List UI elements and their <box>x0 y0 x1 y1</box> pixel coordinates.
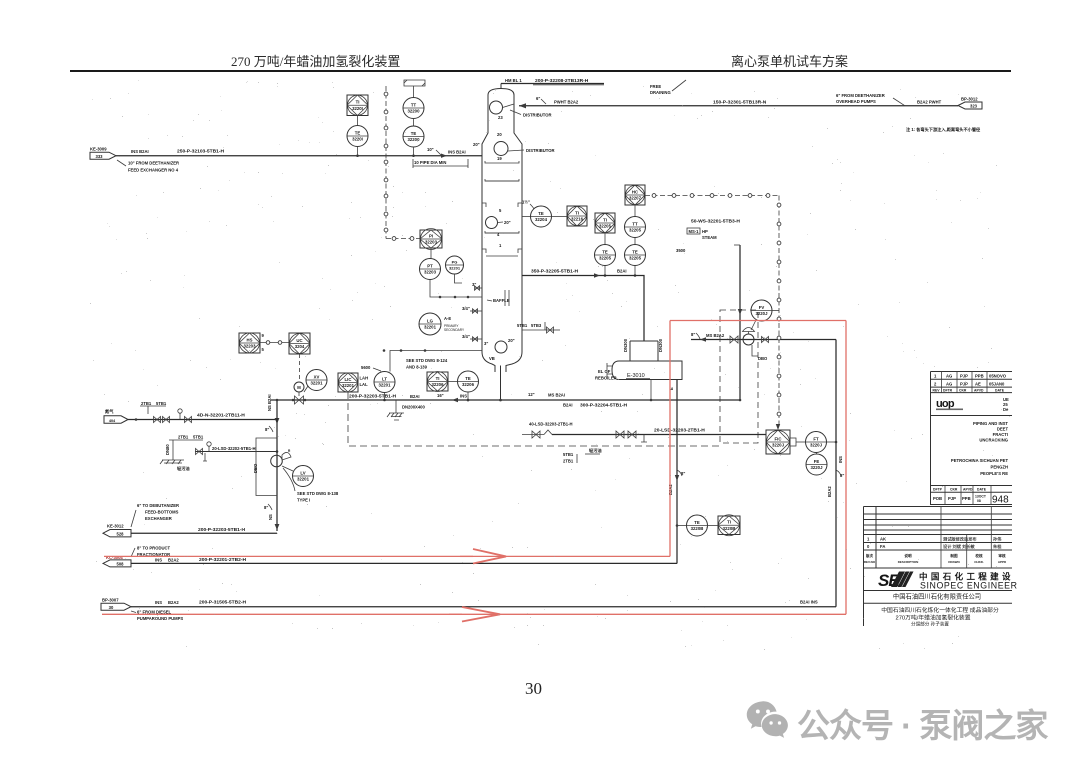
svg-text:制图: 制图 <box>950 553 958 558</box>
svg-text:BP-3007: BP-3007 <box>102 598 119 603</box>
svg-text:2TB1: 2TB1 <box>178 435 189 440</box>
svg-text:404: 404 <box>109 419 116 423</box>
svg-text:测试版修改后发布: 测试版修改后发布 <box>943 536 977 543</box>
branch to TE-3220B <box>677 525 687 527</box>
reboiler bottom stub <box>650 380 652 401</box>
line 350-P-32205 <box>522 276 644 342</box>
line TI to TE 32206 <box>448 381 458 383</box>
svg-text:DISTRIBUTOR: DISTRIBUTOR <box>523 113 552 118</box>
column lower distributor <box>494 142 508 156</box>
svg-text:DFTR: DFTR <box>943 388 953 392</box>
svg-text:DN300: DN300 <box>623 338 628 352</box>
signal elbow to PI <box>386 238 420 240</box>
dashed signal LIC to FIC route <box>348 392 720 446</box>
instrument TE-3220B <box>687 515 708 536</box>
signal HS to UC <box>260 342 289 344</box>
svg-text:8": 8" <box>265 427 269 432</box>
svg-text:POB: POB <box>933 496 942 501</box>
tag KE-3009 <box>90 147 116 160</box>
column nozzle 3/4 left lower <box>470 338 482 340</box>
svg-text:32206: 32206 <box>432 382 445 387</box>
column section notch a <box>482 203 522 207</box>
svg-text:OVERHEAD PUMPS: OVERHEAD PUMPS <box>836 99 876 104</box>
svg-text:NS: NS <box>268 514 273 520</box>
svg-text:40-LSD-32203-2TB1-H: 40-LSD-32203-2TB1-H <box>529 422 573 427</box>
line FIC to FT <box>796 441 806 443</box>
reflux line 150-P-32301 <box>519 105 958 107</box>
svg-text:10" FROM DEETHANIZER: 10" FROM DEETHANIZER <box>128 161 179 166</box>
PT tap line to column <box>430 280 482 298</box>
svg-text:5: 5 <box>262 347 265 352</box>
svg-text:32201: 32201 <box>297 477 310 482</box>
wash line valve pair right wall <box>544 322 546 330</box>
svg-text:HC: HC <box>632 189 638 194</box>
svg-text:3220B: 3220B <box>691 526 704 531</box>
LT stem to line <box>384 393 386 401</box>
motor operator M <box>294 382 304 392</box>
svg-text:B2A2 PWHT: B2A2 PWHT <box>917 100 942 105</box>
svg-text:MS B2AI: MS B2AI <box>548 393 565 398</box>
svg-text:B2AI INS: B2AI INS <box>800 600 818 605</box>
instrument TT-32200 <box>403 98 424 119</box>
svg-text:分馏部分 孙子装置: 分馏部分 孙子装置 <box>911 621 949 628</box>
instrument TE-32206 <box>458 371 479 392</box>
svg-text:200-P-32208-2TB13R-H: 200-P-32208-2TB13R-H <box>535 78 589 84</box>
svg-text:MS B2A2: MS B2A2 <box>706 333 725 338</box>
signal vertical to FIC <box>778 196 780 424</box>
stem TI-TE a <box>604 233 606 245</box>
svg-text:1: 1 <box>499 243 502 248</box>
svg-text:TE: TE <box>355 130 361 135</box>
svg-text:6" FROM DEETHANIZER: 6" FROM DEETHANIZER <box>836 93 885 98</box>
column top nozzle <box>500 84 502 89</box>
stem box-TT <box>413 86 415 97</box>
svg-text:HM BL 1: HM BL 1 <box>505 78 522 83</box>
svg-text:32200: 32200 <box>408 109 421 114</box>
svg-text:32201: 32201 <box>311 381 324 386</box>
svg-text:3/4": 3/4" <box>462 306 470 311</box>
svg-text:SEE STD DWG 8-124: SEE STD DWG 8-124 <box>406 358 448 363</box>
svg-text:DRAINING: DRAINING <box>650 90 671 95</box>
svg-text:19: 19 <box>497 156 502 161</box>
svg-text:TI: TI <box>603 217 607 222</box>
svg-text:3220I: 3220I <box>352 106 363 111</box>
stem TT-TE <box>413 119 415 127</box>
instrument TI-32216 square <box>567 206 587 226</box>
svg-text:TYPE I: TYPE I <box>297 498 310 503</box>
ws line down to bottoms <box>739 245 741 400</box>
column wall valve 3in <box>475 286 480 290</box>
svg-text:DISTRIBUTOR: DISTRIBUTOR <box>526 148 555 153</box>
svg-text:250-P-32103-5TB1-H: 250-P-32103-5TB1-H <box>177 149 224 155</box>
drain valves <box>196 449 203 455</box>
svg-text:DBO: DBO <box>253 463 258 473</box>
scan speckles <box>90 80 1010 650</box>
svg-text:朱桂: 朱桂 <box>993 543 1002 550</box>
nitrogen line 4D-N <box>128 419 277 421</box>
svg-text:5TB1: 5TB1 <box>156 401 167 406</box>
PG tap stem <box>455 274 463 283</box>
line TE-32204 to TI-32216 <box>552 216 568 218</box>
svg-text:TI: TI <box>356 100 360 105</box>
gate valve with motor XV <box>295 396 304 404</box>
column manway 20in bottom <box>495 341 507 353</box>
svg-text:DBO: DBO <box>758 356 768 361</box>
instrument TE-32200 <box>403 126 424 147</box>
svg-text:0: 0 <box>867 544 870 549</box>
svg-text:PETROCHINA SICHUAN PET: PETROCHINA SICHUAN PET <box>951 458 1009 463</box>
svg-text:3220J: 3220J <box>772 443 785 448</box>
instrument TI-3220B square <box>718 515 740 536</box>
stem PI-PT <box>430 248 432 259</box>
svg-text:200-P-32203-5TB1-H: 200-P-32203-5TB1-H <box>349 394 396 400</box>
svg-text:CHKD.: CHKD. <box>974 560 984 564</box>
instrument FIC-3220J square <box>766 430 790 454</box>
svg-text:3220J: 3220J <box>756 311 769 316</box>
header right title <box>731 51 848 70</box>
svg-text:05JAN0: 05JAN0 <box>989 381 1005 386</box>
instrument LIC-32201 square <box>338 373 358 392</box>
svg-text:PIPING AND INST: PIPING AND INST <box>973 421 1008 426</box>
svg-text:8": 8" <box>264 505 268 510</box>
column nozzle 3/4 left <box>470 310 482 312</box>
svg-text:PUMPAROUND PUMPS: PUMPAROUND PUMPS <box>137 616 183 621</box>
svg-text:32201: 32201 <box>379 383 392 388</box>
svg-text:LT: LT <box>382 376 387 381</box>
LV bypass loop <box>256 438 277 496</box>
watermark wechat icon <box>745 698 791 740</box>
nitrogen valves <box>154 417 161 423</box>
instrument FE-3220J <box>806 454 827 475</box>
instrument LV-32201 <box>293 466 314 487</box>
svg-text:16": 16" <box>437 393 444 398</box>
lsd block valves <box>616 431 624 438</box>
svg-text:APPD: APPD <box>998 560 1007 564</box>
svg-text:AND 8-139: AND 8-139 <box>406 365 428 370</box>
svg-text:3220J: 3220J <box>810 443 823 448</box>
column wall valve 3/4 lower <box>473 337 478 341</box>
stem TT-TE b <box>634 238 636 245</box>
svg-text:VB: VB <box>489 356 495 361</box>
svg-text:SINOPEC ENGINEER: SINOPEC ENGINEER <box>920 581 1018 591</box>
lsd line valves left <box>522 434 544 436</box>
svg-text:INS B2AI: INS B2AI <box>448 150 466 155</box>
svg-text:校核: 校核 <box>975 553 983 558</box>
svg-text:孙伟: 孙伟 <box>993 536 1002 543</box>
column tray 19 <box>485 161 519 163</box>
svg-text:AG: AG <box>946 381 952 386</box>
LT top tap line <box>390 351 482 372</box>
svg-text:528: 528 <box>117 532 125 537</box>
svg-text:12": 12" <box>528 392 535 397</box>
svg-text:20-LSD-32203-2TB1-H: 20-LSD-32203-2TB1-H <box>654 428 705 434</box>
column manway 20in upper <box>486 217 498 229</box>
svg-text:FA: FA <box>880 544 885 549</box>
tag BP-3012 <box>958 97 982 110</box>
svg-text:设计 刘斌 刘长敏: 设计 刘斌 刘长敏 <box>943 543 975 550</box>
column neck distributor <box>490 101 503 114</box>
svg-text:5TB1: 5TB1 <box>193 435 204 440</box>
instrument TI-32206 square <box>427 372 448 392</box>
svg-text:STEAM: STEAM <box>702 235 717 240</box>
svg-text:200-P-31505-5TB2-H: 200-P-31505-5TB2-H <box>199 600 246 606</box>
svg-text:5600: 5600 <box>361 365 371 370</box>
svg-text:LG: LG <box>427 318 434 323</box>
svg-text:32205: 32205 <box>599 256 612 261</box>
steam line MS to FV <box>691 339 836 341</box>
svg-text:B2AI: B2AI <box>410 394 420 399</box>
svg-text:REBOILER: REBOILER <box>595 376 617 381</box>
svg-text:INS: INS <box>838 456 843 463</box>
svg-text:FREE: FREE <box>650 84 661 89</box>
svg-text:DEET: DEET <box>997 427 1009 432</box>
boiler oil standpipe <box>169 440 177 460</box>
svg-text:DATE: DATE <box>977 488 987 492</box>
svg-text:审核: 审核 <box>998 553 1006 558</box>
instrument TE circle <box>347 126 368 147</box>
svg-text:uop: uop <box>936 398 955 410</box>
reboiler flange left <box>607 363 612 377</box>
line column to TE-32204 <box>522 216 531 218</box>
svg-text:TE: TE <box>632 249 638 254</box>
bottoms line 200-P-32203 <box>271 399 740 401</box>
svg-text:5: 5 <box>499 208 502 213</box>
header left title <box>231 51 400 70</box>
svg-text:270万吨/年蜡油加氢裂化装置: 270万吨/年蜡油加氢裂化装置 <box>895 614 970 622</box>
red riser right <box>845 321 847 615</box>
column section notch b <box>482 249 522 253</box>
svg-text:De: De <box>1003 407 1009 412</box>
svg-text:NS B2AI: NS B2AI <box>267 394 272 411</box>
svg-text:B2A2: B2A2 <box>827 486 832 497</box>
overhead line 200-P-32208 <box>501 83 604 85</box>
svg-text:TI: TI <box>727 520 731 525</box>
svg-text:2TB1: 2TB1 <box>563 459 574 464</box>
svg-text:B2A2: B2A2 <box>168 558 179 563</box>
svg-text:32216: 32216 <box>571 217 584 222</box>
TE-32200 stem to line <box>413 147 415 156</box>
svg-text:23: 23 <box>498 115 503 120</box>
red arrow return line <box>462 607 500 622</box>
svg-text:32201: 32201 <box>342 383 355 388</box>
svg-text:B2AI: B2AI <box>563 403 573 408</box>
svg-text:DRAWN: DRAWN <box>948 560 959 564</box>
svg-text:TE: TE <box>602 249 608 254</box>
svg-text:TT: TT <box>411 102 417 107</box>
column boot line to bottoms <box>500 366 502 401</box>
svg-text:B2AI: B2AI <box>617 269 627 274</box>
svg-text:FEED-BOTTOMS: FEED-BOTTOMS <box>145 510 179 515</box>
svg-text:DN200X400: DN200X400 <box>402 405 425 410</box>
instrument XV-32201 <box>306 370 327 391</box>
svg-text:PEOPLE'S RE: PEOPLE'S RE <box>980 471 1008 476</box>
svg-text:PJP: PJP <box>960 381 968 386</box>
svg-text:20": 20" <box>504 220 511 225</box>
line 200-P-32203 to exchanger <box>131 532 277 534</box>
svg-text:948: 948 <box>992 495 1009 506</box>
svg-text:A-E: A-E <box>444 316 451 321</box>
svg-text:32205: 32205 <box>629 228 642 233</box>
svg-text:TT: TT <box>632 221 638 226</box>
instrument TE-32204 <box>531 206 552 227</box>
svg-text:CKR: CKR <box>950 488 958 492</box>
instrument TI-32205 square <box>595 213 615 233</box>
svg-text:INS: INS <box>460 394 467 399</box>
svg-text:32206: 32206 <box>462 382 475 387</box>
watermark text <box>797 699 1047 747</box>
svg-text:TI: TI <box>575 210 579 215</box>
FV actuator dome <box>743 328 755 332</box>
svg-text:350-P-32205-5TB1-H: 350-P-32205-5TB1-H <box>531 269 578 275</box>
svg-text:32201: 32201 <box>424 325 437 330</box>
tag BP-3007 <box>101 598 131 611</box>
instrument HS-32203 square <box>239 333 260 353</box>
svg-text:20": 20" <box>473 142 480 147</box>
level gauge LG-32201 <box>419 313 441 335</box>
svg-text:32203: 32203 <box>425 240 438 245</box>
stem HC to TT <box>634 205 636 217</box>
svg-text:注 1: 各弯头下游注入,距离弯头不小管径: 注 1: 各弯头下游注入,距离弯头不小管径 <box>906 126 981 133</box>
feed line 250-P-32103 <box>116 155 482 157</box>
svg-text:508: 508 <box>117 562 125 567</box>
instrument TI square <box>347 95 368 116</box>
signal line vertical x386 <box>385 86 387 239</box>
svg-text:4D-N-32201-2TB11-H: 4D-N-32201-2TB11-H <box>197 413 245 419</box>
pumparound line 200-P-31505 <box>131 606 836 608</box>
red highlight product line <box>104 555 670 557</box>
svg-text:UNCRACKING: UNCRACKING <box>979 438 1008 443</box>
svg-text:50-WS-32201-5TB3-H: 50-WS-32201-5TB3-H <box>691 219 740 225</box>
riser MS line right <box>835 340 837 607</box>
svg-text:3220J: 3220J <box>811 465 824 470</box>
svg-text:13OCT: 13OCT <box>975 495 987 499</box>
svg-text:PPB: PPB <box>962 496 971 501</box>
svg-text:FE: FE <box>814 459 820 464</box>
svg-text:INS: INS <box>155 558 162 563</box>
svg-text:FV: FV <box>759 305 765 310</box>
instrument FT-3220J <box>806 432 827 453</box>
svg-text:SECONDARY: SECONDARY <box>444 328 465 332</box>
dashed bypass enclosure <box>720 310 758 443</box>
steam block valve <box>730 336 738 343</box>
svg-text:300-P-32204-5TB1-H: 300-P-32204-5TB1-H <box>580 403 627 409</box>
column wall valve 3/4 upper <box>473 309 478 313</box>
dot reflux tie <box>383 349 386 352</box>
column C-3201 shell <box>482 89 522 373</box>
red arrow product line <box>473 549 506 564</box>
svg-text:PJP: PJP <box>960 374 968 379</box>
drain line 20-LSD-32202 <box>195 451 277 453</box>
reboiler inlet nozzles DN300 <box>630 341 658 361</box>
svg-text:32200: 32200 <box>408 137 421 142</box>
product line 200-P-32201 <box>131 562 677 564</box>
svg-text:R: R <box>288 449 291 453</box>
svg-text:MS-1: MS-1 <box>689 229 700 234</box>
svg-text:3220B: 3220B <box>723 526 736 531</box>
svg-text:AE: AE <box>975 381 981 386</box>
downstream block valve <box>762 337 769 343</box>
svg-text:CKR: CKR <box>959 388 967 392</box>
svg-text:轻污油: 轻污油 <box>177 465 190 472</box>
svg-text:3204: 3204 <box>295 344 305 349</box>
svg-text:KE-3009: KE-3009 <box>90 147 107 152</box>
tag KC-3004 <box>103 555 131 567</box>
line FT to riser <box>827 441 837 443</box>
svg-text:1: 1 <box>867 537 870 542</box>
page number 30 <box>525 679 542 699</box>
svg-text:FRACTI: FRACTI <box>993 432 1008 437</box>
interlock box above TT <box>404 80 425 86</box>
svg-text:1: 1 <box>934 374 937 379</box>
svg-text:版次: 版次 <box>866 553 874 558</box>
nitrogen junction arrow <box>275 418 280 424</box>
svg-text:TE: TE <box>411 131 417 136</box>
svg-text:说明: 说明 <box>904 553 912 558</box>
svg-text:PPB: PPB <box>975 374 984 379</box>
red riser left <box>669 321 671 557</box>
instrument TT-32205 <box>625 217 646 238</box>
svg-text:DN80: DN80 <box>165 444 170 455</box>
svg-text:APVD: APVD <box>963 488 973 492</box>
svg-text:PI: PI <box>429 233 433 238</box>
svg-text:M: M <box>297 385 301 390</box>
svg-text:3500: 3500 <box>676 248 686 253</box>
tag nitrogen 404 <box>104 408 128 423</box>
svg-text:TE: TE <box>465 376 471 381</box>
svg-text:32204: 32204 <box>535 217 548 222</box>
svg-text:3": 3" <box>484 341 488 346</box>
svg-text:20: 20 <box>497 132 502 137</box>
dashed signal to motor valve <box>299 354 301 381</box>
svg-text:AG: AG <box>946 374 952 379</box>
svg-text:DATE: DATE <box>995 388 1005 392</box>
svg-text:PJP: PJP <box>948 496 956 501</box>
svg-text:LAL: LAL <box>360 382 369 387</box>
svg-text:20-LSD-32202-5TB1-H: 20-LSD-32202-5TB1-H <box>212 446 256 451</box>
svg-text:BP-3012: BP-3012 <box>961 97 978 102</box>
sei title block frame <box>864 507 1013 627</box>
instrument FV-3220J <box>751 300 772 321</box>
drain line 20-LSD-32203 <box>552 434 766 436</box>
svg-text:5TB1: 5TB1 <box>517 323 528 328</box>
svg-text:32205: 32205 <box>629 256 642 261</box>
svg-text:氮气: 氮气 <box>105 408 114 415</box>
svg-text:5TB3: 5TB3 <box>531 323 542 328</box>
svg-text:DN300: DN300 <box>658 338 663 352</box>
svg-text:32205: 32205 <box>599 224 612 229</box>
svg-text:DFTP: DFTP <box>933 488 943 492</box>
column nozzle 3in left upper <box>475 287 482 289</box>
instrument TE-32205 a <box>595 245 616 266</box>
svg-text:5TB1: 5TB1 <box>563 452 574 457</box>
instrument HC-32207 square <box>625 185 645 205</box>
instrument UC square <box>289 333 310 354</box>
svg-text:PT: PT <box>427 263 433 268</box>
svg-text:APVD: APVD <box>974 388 984 392</box>
svg-text:REV.NO: REV.NO <box>864 560 876 564</box>
svg-text:3220I: 3220I <box>352 137 363 142</box>
svg-text:32201: 32201 <box>449 266 461 271</box>
svg-text:10 PIPE DIA MIN: 10 PIPE DIA MIN <box>414 160 446 165</box>
svg-text:INS: INS <box>155 600 162 605</box>
svg-text:323: 323 <box>970 104 978 109</box>
svg-text:TE: TE <box>538 211 544 216</box>
svg-text:PWHT B2A2: PWHT B2A2 <box>554 100 579 105</box>
svg-text:FT: FT <box>813 436 819 441</box>
svg-text:2TB1: 2TB1 <box>141 401 152 406</box>
signal HC-32207 to FIC horizontal <box>645 195 779 197</box>
svg-text:AK: AK <box>880 537 886 542</box>
